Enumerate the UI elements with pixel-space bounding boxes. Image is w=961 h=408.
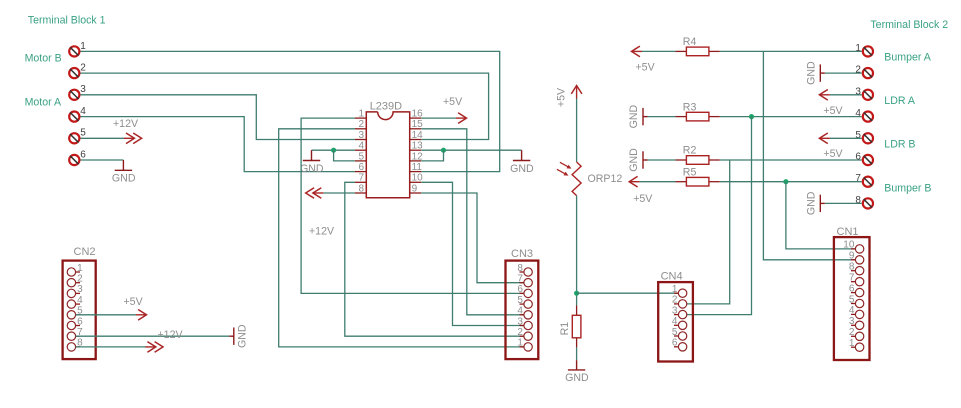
connector CN1 pin 3: [849, 316, 864, 329]
svg-text:ORP12: ORP12: [588, 173, 623, 185]
connector CN2 pin 4: [67, 295, 83, 308]
connector CN3 pin 8: [517, 263, 532, 276]
Terminal Block 1 title: [28, 14, 106, 26]
svg-text:8: 8: [849, 262, 855, 273]
svg-text:5: 5: [849, 294, 855, 305]
wire branch R2 net to CN4 pin2: [687, 160, 730, 304]
connector CN1 pin 1: [849, 338, 864, 351]
svg-text:GND: GND: [628, 148, 640, 172]
svg-text:11: 11: [412, 162, 423, 173]
svg-text:5: 5: [672, 327, 678, 338]
wire IC pin1 to CN3 pin6: [301, 118, 524, 293]
connector CN2 pin 3: [67, 284, 83, 297]
svg-text:R2: R2: [683, 145, 697, 157]
connector CN2 pin 1: [67, 263, 83, 276]
svg-text:CN2: CN2: [74, 246, 96, 258]
svg-text:+5V: +5V: [124, 296, 144, 308]
wire R3 to TB2 pin4: [720, 116, 862, 118]
wire +5V to R5: [640, 181, 676, 183]
IC U1 pin 4 stub and number: [355, 141, 366, 152]
svg-text:6: 6: [80, 149, 86, 160]
connector CN3 pin 4: [517, 306, 532, 319]
+5V supply arrow at IC pin16: [443, 96, 467, 123]
+5V supply arrow above ORP12: [555, 86, 582, 108]
label Motor B: [25, 53, 62, 65]
svg-text:2: 2: [855, 65, 861, 76]
wire TB1 pin3 to IC pin3 (Motor A+): [81, 95, 356, 140]
connector CN1 pin 2: [849, 327, 864, 340]
wire divider tap to CN4 pin1: [577, 292, 679, 294]
IC U1 pin 12 stub and number: [410, 151, 423, 162]
wire IC pin7 to CN3 pin2: [345, 182, 524, 336]
junction dot IC pin4/pin5 net: [331, 148, 336, 153]
svg-text:4: 4: [855, 108, 861, 119]
+5V supply arrow at CN2 pin5: [124, 296, 147, 320]
wire branch R3 net to CN4 pin3: [687, 117, 752, 315]
svg-text:4: 4: [358, 141, 364, 152]
ground symbol left of IC (pins 4,5): [300, 150, 324, 175]
ground symbol at TB1 pin6: [112, 160, 136, 185]
Terminal Block 2 title: [870, 19, 948, 31]
wire +5V to R4: [642, 50, 676, 52]
resistor R5: [676, 166, 720, 186]
label LDR A: [884, 95, 916, 107]
connector CN2 pin 8: [67, 338, 83, 351]
svg-text:1: 1: [672, 284, 678, 295]
svg-text:4: 4: [849, 305, 855, 316]
connector CN1 pin 7: [849, 273, 864, 286]
connector CN3 pin 3: [517, 316, 532, 329]
svg-text:Terminal Block 2: Terminal Block 2: [870, 19, 948, 31]
+5V supply arrow left of R4: [632, 46, 656, 73]
junction dot R3 net: [749, 114, 754, 119]
svg-text:1: 1: [358, 109, 364, 120]
svg-text:5: 5: [855, 130, 861, 141]
wire branch R4 net to CN1 pin9: [763, 51, 855, 259]
connector CN3 pin 7: [517, 274, 532, 287]
connector CN4 pin 2: [672, 295, 687, 308]
terminal block 2 pin 8: [855, 195, 873, 209]
resistor R4: [676, 36, 720, 56]
connector CN3 pin 6: [517, 284, 532, 297]
svg-text:L239D: L239D: [370, 100, 402, 112]
IC U1 pin 9 stub and number: [410, 183, 422, 194]
svg-text:1: 1: [855, 43, 861, 54]
connector CN3 box: [506, 248, 539, 359]
terminal block 1 pin 3: [69, 84, 86, 100]
connector CN3 pin 5: [517, 295, 532, 308]
terminal block 2 pin 3: [855, 86, 873, 100]
connector CN2 pin 2: [67, 274, 83, 287]
svg-text:7: 7: [849, 273, 855, 284]
svg-text:CN3: CN3: [511, 248, 533, 260]
svg-text:R5: R5: [683, 166, 697, 178]
ground symbol at CN2 pin7 (rotated): [229, 324, 248, 348]
wire branch Bumper B net to CN1 pin10: [786, 182, 855, 249]
svg-text:+12V: +12V: [309, 225, 335, 237]
wire R5 to TB2 pin7: [720, 181, 862, 183]
wire IC pin4 to GND (left): [312, 149, 356, 151]
svg-text:6: 6: [855, 152, 861, 163]
svg-text:+12V: +12V: [158, 329, 184, 341]
svg-text:3: 3: [517, 316, 523, 327]
IC U1 pin 2 stub and number: [355, 119, 366, 130]
IC U1 L239D body: [366, 100, 409, 197]
+12V supply arrow at TB1 pin5: [113, 118, 142, 144]
svg-text:1: 1: [80, 41, 86, 52]
connector CN1 pin 4: [849, 305, 864, 318]
+5V supply arrow left of R5: [629, 176, 653, 205]
terminal block 2 pin 4: [855, 108, 873, 122]
svg-text:5: 5: [80, 128, 86, 139]
connector CN2 pin 5: [67, 306, 83, 319]
wire CN2 pin8 to +12V supply: [76, 346, 146, 348]
wire TB2 pin3 to +5V supply: [830, 94, 862, 96]
svg-text:Motor A: Motor A: [25, 97, 62, 109]
terminal block 1 pin 5: [69, 128, 86, 144]
label Motor A: [25, 97, 62, 109]
+5V supply arrow at TB2 pin3: [819, 90, 843, 117]
wire +5V to ORP12: [576, 99, 578, 163]
svg-text:1: 1: [517, 338, 523, 349]
terminal block 2 pin 1: [855, 43, 873, 57]
terminal block 1 pin 2: [69, 63, 86, 79]
wire ORP12 to R1: [576, 196, 578, 306]
svg-text:+5V: +5V: [633, 193, 653, 205]
IC U1 pin 11 stub and number: [410, 162, 423, 173]
wire IC pin10 to CN3 pin3: [421, 182, 524, 325]
svg-text:2: 2: [517, 327, 523, 338]
connector CN4 pin 5: [672, 327, 687, 340]
IC U1 pin 15 stub and number: [410, 119, 423, 130]
svg-text:GND: GND: [300, 163, 324, 175]
svg-text:3: 3: [358, 130, 364, 141]
terminal block 2 pin 6: [855, 152, 873, 166]
wire TB1 pin4 to IC pin6 (Motor A-): [81, 117, 356, 172]
svg-text:6: 6: [849, 283, 855, 294]
connector CN3 pin 1: [517, 338, 532, 351]
svg-text:+5V: +5V: [636, 61, 656, 73]
wire TB1 pin1 to IC pin11 (Motor B+): [81, 51, 500, 171]
terminal block 2 pin 5: [855, 130, 873, 144]
svg-text:3: 3: [855, 86, 861, 97]
+5V supply arrow at TB2 pin5: [819, 133, 843, 160]
+12V supply arrow at CN2 pin8: [145, 329, 183, 352]
IC U1 pin 14 stub and number: [410, 130, 423, 141]
svg-text:GND: GND: [236, 324, 248, 348]
svg-text:6: 6: [672, 338, 678, 349]
svg-text:4: 4: [672, 316, 678, 327]
wire TB2 pin8 to GND: [825, 202, 862, 204]
ground symbol left of R2 (rotated): [628, 148, 647, 172]
wire TB1 pin6 to GND: [81, 159, 124, 161]
ground symbol at TB2 pin2 (rotated): [805, 61, 824, 85]
connector CN2 box: [63, 246, 96, 359]
terminal block 2 pin 2: [855, 65, 873, 79]
svg-text:2: 2: [80, 63, 86, 74]
svg-text:5: 5: [358, 151, 364, 162]
svg-text:8: 8: [358, 183, 364, 194]
svg-text:3: 3: [77, 284, 83, 295]
svg-text:9: 9: [849, 251, 855, 262]
label Bumper B: [884, 182, 931, 194]
wire TB1 pin5 to +12V supply: [81, 137, 125, 139]
svg-text:+12V: +12V: [113, 118, 139, 130]
svg-text:2: 2: [672, 295, 678, 306]
connector CN2 pin 7: [67, 327, 83, 340]
connector CN4 pin 6: [672, 338, 687, 351]
+12V supply arrow at IC pin8: [306, 188, 335, 238]
ground symbol below R1: [565, 360, 589, 384]
svg-text:GND: GND: [805, 191, 817, 215]
svg-text:+5V: +5V: [443, 96, 463, 108]
label Bumper A: [884, 52, 931, 64]
connector CN1 pin 8: [849, 262, 864, 275]
connector CN4 pin 4: [672, 316, 687, 329]
IC U1 pin 10 stub and number: [410, 173, 423, 184]
svg-text:1: 1: [77, 263, 83, 274]
svg-text:3: 3: [672, 305, 678, 316]
wire GND to R3: [648, 116, 676, 118]
IC U1 pin 13 stub and number: [410, 141, 423, 152]
svg-text:7: 7: [855, 173, 861, 184]
svg-text:GND: GND: [628, 104, 640, 128]
resistor R2: [676, 145, 720, 165]
svg-text:14: 14: [412, 130, 424, 141]
resistor R1 (vertical): [559, 305, 581, 347]
wire CN2 pin7 to GND: [76, 335, 230, 337]
svg-text:GND: GND: [510, 163, 534, 175]
svg-text:4: 4: [517, 306, 523, 317]
svg-text:3: 3: [80, 84, 86, 95]
svg-text:+5V: +5V: [823, 105, 843, 117]
wire TB2 pin5 to +5V supply: [830, 137, 862, 139]
svg-text:+5V: +5V: [823, 148, 843, 160]
wire TB1 pin2 to IC pin14 (Motor B-): [81, 73, 489, 139]
junction dot divider tap to CN4 pin1: [574, 291, 579, 296]
wire R2 to TB2 pin6: [720, 159, 862, 161]
svg-text:7: 7: [358, 173, 364, 184]
wire CN2 pin5 to +5V supply: [76, 314, 136, 316]
wire IC pin8 to +12V supply: [323, 192, 355, 194]
svg-text:CN4: CN4: [661, 271, 683, 283]
svg-text:2: 2: [849, 327, 855, 338]
svg-text:Bumper B: Bumper B: [884, 182, 931, 194]
terminal block 1 pin 1: [69, 41, 86, 57]
connector CN3 pin 2: [517, 327, 532, 340]
svg-text:8: 8: [517, 263, 523, 274]
svg-text:GND: GND: [112, 173, 136, 185]
junction dot IC pin13/pin12 net: [441, 148, 446, 153]
svg-text:Terminal Block 1: Terminal Block 1: [28, 14, 106, 26]
svg-text:CN1: CN1: [837, 226, 859, 238]
wire IC pin9 to CN3 pin7: [421, 193, 524, 283]
IC U1 pin 5 stub and number: [355, 151, 366, 162]
ground symbol right of IC (pins 12,13): [510, 150, 534, 175]
connector CN1 pin 6: [849, 283, 864, 296]
connector CN1 box: [834, 226, 870, 360]
svg-text:3: 3: [849, 316, 855, 327]
connector CN4 pin 3: [672, 305, 687, 318]
ground symbol left of R3 (rotated): [628, 104, 647, 128]
svg-text:R1: R1: [559, 322, 571, 336]
terminal block 1 pin 4: [69, 106, 86, 122]
svg-text:Bumper A: Bumper A: [884, 52, 931, 64]
svg-text:GND: GND: [565, 372, 589, 384]
connector CN2 pin 6: [67, 316, 83, 329]
svg-text:8: 8: [855, 195, 861, 206]
terminal block 2 pin 7: [855, 173, 873, 187]
wire IC pin13 to GND (right): [421, 149, 521, 151]
svg-text:6: 6: [517, 284, 523, 295]
svg-text:6: 6: [358, 162, 364, 173]
svg-text:LDR B: LDR B: [884, 139, 915, 151]
svg-text:2: 2: [358, 119, 364, 130]
wire branch junction to IC pin5: [334, 150, 355, 161]
wire IC pin2 to CN3 pin1: [279, 129, 524, 347]
wire IC pin15 to CN3 pin4: [421, 129, 524, 315]
svg-text:6: 6: [77, 316, 83, 327]
svg-text:R4: R4: [683, 36, 697, 48]
terminal block 1 pin 6: [69, 149, 86, 165]
svg-text:5: 5: [517, 295, 523, 306]
svg-text:+5V: +5V: [555, 87, 567, 107]
svg-text:LDR A: LDR A: [884, 95, 916, 107]
wire R4 to TB2 pin1: [720, 50, 862, 52]
svg-text:GND: GND: [805, 61, 817, 85]
IC U1 pin 6 stub and number: [355, 162, 366, 173]
connector CN1 pin 10: [843, 240, 864, 253]
svg-text:10: 10: [843, 240, 855, 251]
svg-text:4: 4: [77, 295, 83, 306]
IC U1 pin 1 stub and number: [355, 109, 366, 120]
label LDR B: [884, 139, 915, 151]
wire GND to R2: [648, 159, 676, 161]
IC U1 pin 3 stub and number: [355, 130, 366, 141]
svg-text:4: 4: [80, 106, 86, 117]
wire IC pin16 to +5V supply: [421, 117, 456, 119]
connector CN4 pin 1: [672, 284, 687, 297]
connector CN1 pin 5: [849, 294, 864, 307]
wire TB2 pin2 to GND: [825, 72, 862, 74]
IC U1 pin 16 stub and number: [410, 109, 423, 120]
svg-text:2: 2: [77, 274, 83, 285]
connector CN1 pin 9: [849, 251, 864, 264]
svg-text:Motor B: Motor B: [25, 53, 62, 65]
wire branch junction to IC pin12: [421, 150, 443, 161]
svg-text:1: 1: [849, 338, 855, 349]
LDR ORP12: [557, 162, 622, 196]
svg-text:9: 9: [412, 183, 418, 194]
svg-text:7: 7: [517, 274, 523, 285]
junction dot Bumper B net: [783, 179, 788, 184]
IC U1 pin 7 stub and number: [355, 173, 366, 184]
IC U1 pin 8 stub and number: [355, 183, 366, 194]
connector CN4 box: [658, 271, 693, 362]
wire R1 to GND: [576, 347, 578, 360]
resistor R3: [676, 101, 720, 121]
ground symbol at TB2 pin8 (rotated): [805, 191, 824, 215]
svg-text:R3: R3: [683, 101, 697, 113]
